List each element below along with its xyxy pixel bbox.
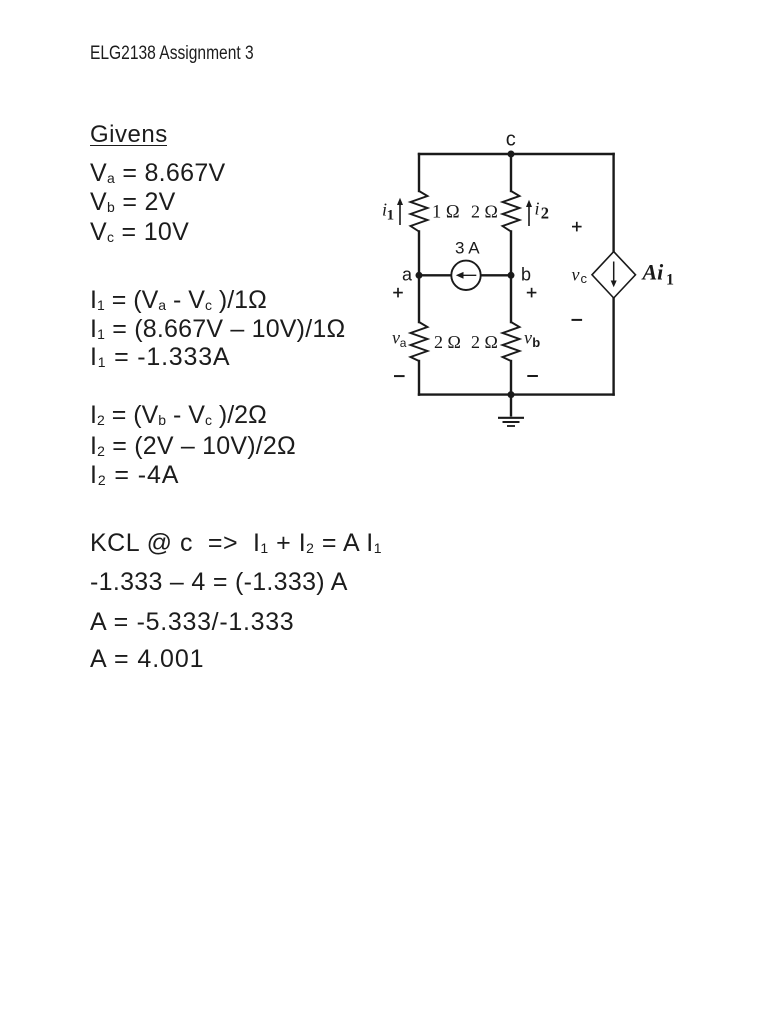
- svg-text:1: 1: [666, 272, 674, 289]
- node c dot: [508, 151, 515, 158]
- minus below vb: [527, 375, 538, 377]
- svg-text:a: a: [400, 336, 407, 350]
- svg-text:2 Ω: 2 Ω: [471, 202, 498, 222]
- underline rule: [90, 145, 167, 147]
- plus under a: [393, 292, 403, 294]
- svg-text:3 A: 3 A: [455, 239, 480, 258]
- dependent source arrow: [611, 262, 617, 288]
- node a dot: [416, 272, 423, 279]
- ground: [498, 395, 524, 426]
- wire node a to current source: [419, 274, 452, 276]
- wire middle mid segment: [510, 232, 512, 323]
- svg-text:b: b: [521, 265, 531, 285]
- wire left middle segment: [418, 232, 420, 323]
- current source arrow: [456, 272, 477, 279]
- svg-text:2: 2: [541, 204, 549, 223]
- givens block: [90, 161, 226, 186]
- resistor 1ohm left: [411, 191, 428, 232]
- svg-text:c: c: [581, 271, 588, 286]
- svg-text:a: a: [402, 265, 413, 285]
- minus below vc: [572, 319, 583, 321]
- wire middle top segment: [510, 154, 512, 191]
- svg-text:v: v: [524, 328, 532, 348]
- plus above vc: [572, 226, 582, 228]
- wire left bottom segment: [418, 361, 420, 395]
- minus below va: [394, 375, 405, 377]
- svg-text:1: 1: [387, 208, 395, 224]
- resistor 2ohm bottom left: [411, 322, 428, 361]
- wire left top segment: [418, 154, 420, 191]
- node b dot: [508, 272, 515, 279]
- wire right top segment: [612, 154, 614, 252]
- plus under b: [527, 292, 537, 294]
- svg-text:1 Ω: 1 Ω: [432, 203, 460, 223]
- arrow i2: [526, 200, 532, 226]
- wire top rail: [419, 153, 614, 155]
- header: [90, 44, 254, 63]
- wire middle bottom segment: [510, 361, 512, 395]
- current source 3A circle: [451, 261, 480, 290]
- wire bottom rail: [419, 393, 614, 395]
- I1 block: [90, 288, 267, 313]
- svg-text:2 Ω: 2 Ω: [471, 332, 498, 352]
- wire current source to node b: [481, 274, 511, 276]
- svg-text:v: v: [392, 328, 400, 348]
- Givens heading: [90, 123, 168, 147]
- svg-text:v: v: [572, 265, 580, 285]
- resistor 2ohm top middle: [503, 191, 520, 232]
- arrow i1: [397, 198, 403, 225]
- KCL block: [90, 531, 382, 556]
- wire right bottom segment: [612, 298, 614, 395]
- svg-text:c: c: [506, 129, 516, 151]
- node ground dot: [508, 391, 515, 398]
- I2 block: [90, 403, 267, 428]
- svg-text:i: i: [535, 199, 540, 219]
- dependent source diamond: [592, 252, 636, 298]
- svg-text:b: b: [532, 335, 540, 350]
- svg-text:Ai: Ai: [641, 260, 665, 285]
- svg-text:2 Ω: 2 Ω: [434, 332, 461, 352]
- resistor 2ohm bottom middle: [503, 322, 520, 361]
